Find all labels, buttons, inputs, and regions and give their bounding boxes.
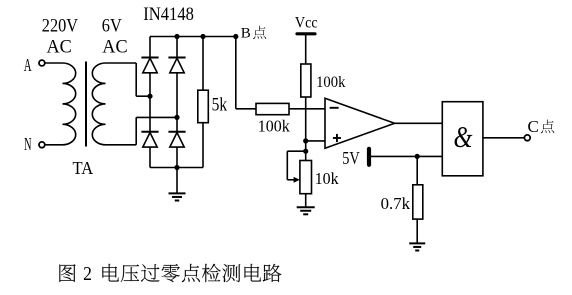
svg-text:&: & <box>454 119 473 154</box>
svg-text:N: N <box>24 134 31 154</box>
svg-text:2: 2 <box>83 263 92 285</box>
svg-text:AC: AC <box>102 37 127 58</box>
svg-text:10k: 10k <box>315 169 339 188</box>
svg-text:Vcc: Vcc <box>295 14 318 31</box>
svg-text:5V: 5V <box>342 148 360 168</box>
svg-text:100k: 100k <box>316 74 345 91</box>
svg-text:TA: TA <box>73 158 94 178</box>
svg-text:220V: 220V <box>42 16 78 37</box>
svg-text:100k: 100k <box>258 116 290 135</box>
svg-text:AC: AC <box>47 37 72 58</box>
svg-text:IN4148: IN4148 <box>143 4 194 25</box>
svg-text:5k: 5k <box>212 95 228 116</box>
svg-text:C: C <box>528 117 539 136</box>
svg-text:0.7k: 0.7k <box>381 194 411 213</box>
svg-text:B: B <box>241 26 251 42</box>
svg-text:6V: 6V <box>102 16 122 37</box>
svg-text:A: A <box>24 55 32 75</box>
